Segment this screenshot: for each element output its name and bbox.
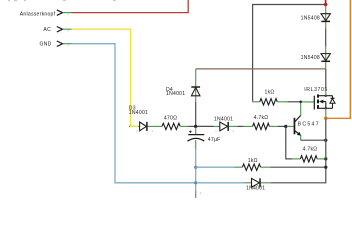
- diode D2 1N4001 mid: [214, 116, 238, 130]
- diode D1 1N4001 bottom: [244, 178, 271, 191]
- wire gray between D5 D6: [325, 28, 327, 46]
- wire yellow AC: [72, 29, 140, 126]
- resistor R 4.7k base: [244, 115, 278, 129]
- node junction gate collector: [299, 101, 302, 104]
- svg-text:AC: AC: [43, 27, 51, 33]
- svg-text:1N4001: 1N4001: [129, 110, 148, 116]
- wire gray mid row b: [237, 125, 243, 127]
- green lead gate: [302, 101, 314, 103]
- svg-text:1N4001: 1N4001: [166, 91, 185, 97]
- wire gray base node down: [286, 128, 292, 159]
- node junction 4.7k rail: [324, 157, 327, 160]
- svg-text:IRL3705: IRL3705: [304, 87, 328, 93]
- wire blue bottom row left of diode: [197, 182, 243, 184]
- wire dark-red stub top: [325, 0, 327, 4]
- green lead bottom edge: [195, 191, 197, 198]
- svg-text:1kΩ: 1kΩ: [265, 89, 275, 95]
- svg-text:47µF: 47µF: [208, 137, 221, 143]
- node junction base: [284, 125, 287, 128]
- diode D5 1N5408: [301, 6, 331, 29]
- diode D4 1N4001 vertical: [166, 69, 200, 102]
- wire orange: [327, 0, 350, 118]
- wire gray top rail: [253, 5, 326, 102]
- svg-text:4.7kΩ: 4.7kΩ: [254, 115, 269, 121]
- svg-text:1N5408: 1N5408: [301, 15, 320, 21]
- diode D6 1N5408: [301, 47, 331, 69]
- capacitor C 47uF: [188, 128, 221, 150]
- MOSFET U1 IRL3705: [304, 87, 335, 118]
- wire blue cap bottom: [195, 150, 197, 191]
- wire gray rail down: [270, 120, 326, 183]
- resistor R 1k bottom: [196, 158, 271, 170]
- resistor R 4.7k emitter: [292, 147, 325, 163]
- svg-text:1N4001: 1N4001: [246, 186, 265, 192]
- decorative faint pin ticks: [68, 13, 233, 194]
- cropped text specks top edge: [8, 0, 116, 1]
- svg-text:470Ω: 470Ω: [164, 115, 177, 121]
- node junction orange: [324, 117, 327, 120]
- wire gray D4 to junction: [195, 102, 197, 126]
- node junction red top: [324, 3, 328, 7]
- node junction 1k rail: [324, 166, 327, 169]
- node junction mid: [194, 125, 197, 128]
- connector P1 Anlasserknopf: [20, 10, 72, 18]
- connector P3 GND: [40, 41, 72, 47]
- svg-text:1N4001: 1N4001: [214, 116, 233, 122]
- wire gray emitter row: [301, 139, 326, 141]
- svg-text:4.7kΩ: 4.7kΩ: [303, 147, 318, 153]
- svg-text:GND: GND: [40, 41, 52, 47]
- wire gray mid row a: [197, 125, 213, 127]
- svg-text:1N5408: 1N5408: [301, 55, 320, 61]
- wire brown: [196, 68, 326, 70]
- svg-text:BC547: BC547: [298, 122, 320, 128]
- svg-text:Anlasserknopf: Anlasserknopf: [20, 11, 56, 17]
- node junction blue 2: [194, 181, 197, 184]
- wire blue GND: [72, 44, 196, 183]
- resistor R 1k top: [253, 89, 288, 105]
- wire gray drain up: [325, 69, 327, 88]
- wire gray to junction: [188, 125, 194, 127]
- node junction blue 1: [194, 166, 197, 169]
- wire gray mid row c: [278, 125, 285, 127]
- diode D3 1N4001: [129, 105, 162, 130]
- transistor Q1 BC547: [287, 103, 320, 140]
- resistor R 470: [162, 115, 188, 129]
- connector P2 AC: [43, 27, 71, 33]
- wire gray gate row: [288, 101, 300, 103]
- wire gray 1k bottom right: [270, 166, 326, 168]
- node junction emitter rail: [324, 139, 327, 142]
- wire red Anlasserknopf: [72, 0, 189, 13]
- svg-text:1kΩ: 1kΩ: [248, 158, 258, 164]
